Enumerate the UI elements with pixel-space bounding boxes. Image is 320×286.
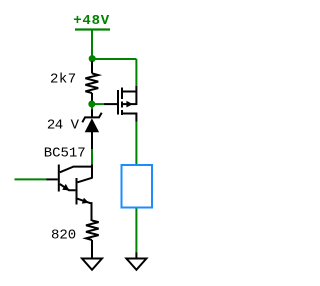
resistor 2k7 top lead (91, 61, 93, 73)
resistor 2k7 bottom lead (91, 93, 93, 101)
wire source to box (135, 122, 137, 165)
transistor Q1 base lead (46, 178, 58, 180)
wire base input (15, 178, 47, 180)
zener stub green (91, 106, 93, 110)
mosfet channel bar (121, 88, 123, 116)
transistor Q2 collector (78, 178, 93, 183)
resistor 820 zigzag (86, 221, 99, 241)
svg-text:+48V: +48V (73, 13, 110, 29)
transistor Q1 base bar (58, 165, 60, 192)
svg-text:24 V: 24 V (47, 118, 80, 134)
node junction dot top (89, 55, 96, 62)
ground symbol left (82, 259, 102, 270)
wire right rail to drain (135, 59, 137, 87)
resistor 820 bottom lead (91, 240, 93, 258)
zener cathode bar with hooks (82, 113, 101, 123)
wire top horizontal (92, 58, 136, 60)
power symbol stem (91, 30, 93, 58)
wire zener to collector (91, 149, 93, 164)
power symbol +48V bar (75, 28, 110, 30)
mosfet middle stub (122, 103, 136, 105)
transistor Q2 base bar (76, 178, 78, 205)
svg-text:BC517: BC517 (44, 145, 86, 161)
mosfet drain vertical (135, 86, 137, 105)
transistor Q2 emitter (77, 199, 92, 221)
transistor Q1 emitter (60, 184, 76, 190)
transistor Q2 collector vertical (91, 166, 93, 179)
wire gate green segment (92, 103, 104, 105)
node junction dot middle (88, 101, 95, 108)
transistor Q2 emitter arrow (82, 198, 89, 204)
zener anode lead (91, 132, 93, 150)
mosfet gate lead (104, 103, 117, 105)
zener triangle (85, 118, 99, 132)
mosfet gate bar (117, 90, 119, 115)
wire box to ground (135, 209, 137, 254)
mosfet body arrow (126, 101, 133, 108)
transistor Q1 emitter arrow (62, 184, 69, 191)
load box (122, 165, 153, 208)
zener cathode lead (91, 110, 93, 118)
ground symbol right (126, 259, 146, 270)
mosfet top stub drain (122, 91, 136, 93)
transistor Q1 collector line (60, 164, 92, 172)
resistor 2k7 zigzag (85, 73, 98, 93)
svg-text:2k7: 2k7 (50, 72, 77, 88)
mosfet bottom stub source (122, 114, 136, 122)
svg-text:820: 820 (51, 228, 76, 244)
ground right lead black (135, 253, 137, 259)
